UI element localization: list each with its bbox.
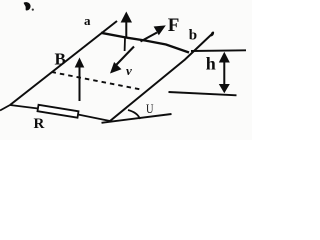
velocity v arrow head bbox=[110, 62, 122, 74]
field B arrow head bbox=[75, 58, 85, 68]
bottom-left wire overshoot to image edge bbox=[0, 105, 10, 111]
force F arrow stem bbox=[141, 33, 158, 42]
svg-text:v: v bbox=[126, 63, 132, 78]
svg-text:R: R bbox=[34, 116, 45, 132]
bottom edge wire, left of resistor R bbox=[10, 105, 38, 109]
rail tip hook bbox=[211, 32, 214, 37]
left rail (from bottom-left corner up past rod end a) bbox=[10, 21, 117, 105]
stray ink mark top-left bbox=[24, 2, 34, 11]
up arrow at rod (normal arrow) stem below rod bbox=[124, 38, 126, 51]
rod ab (top edge) bbox=[101, 33, 189, 53]
dashed line (previous rod position) bbox=[52, 72, 142, 90]
h measure: double arrow stem bbox=[223, 58, 225, 88]
svg-text:h: h bbox=[206, 54, 216, 74]
h measure: bottom reference line bbox=[169, 92, 237, 95]
force F arrow head bbox=[154, 25, 166, 35]
svg-text:F: F bbox=[168, 15, 180, 36]
field B arrow stem bbox=[79, 67, 81, 102]
svg-text:U: U bbox=[146, 102, 154, 116]
h measure: top reference line bbox=[191, 49, 246, 52]
svg-text:b: b bbox=[189, 28, 197, 44]
right rail (incline hypotenuse from vertex up past rod end b) bbox=[110, 33, 213, 121]
up arrow at rod: head bbox=[121, 12, 132, 23]
up arrow at rod: stem bbox=[125, 21, 127, 38]
ground line at incline base bbox=[102, 114, 172, 123]
bottom edge wire, right of resistor to incline vertex bbox=[78, 115, 110, 122]
resistor R body bbox=[38, 105, 79, 118]
svg-text:a: a bbox=[84, 13, 91, 28]
h measure: down head bbox=[219, 84, 230, 93]
svg-text:B: B bbox=[55, 50, 66, 69]
velocity v arrow stem bbox=[117, 47, 135, 65]
h measure: up head bbox=[219, 52, 230, 63]
angle arc theta bbox=[128, 110, 140, 119]
